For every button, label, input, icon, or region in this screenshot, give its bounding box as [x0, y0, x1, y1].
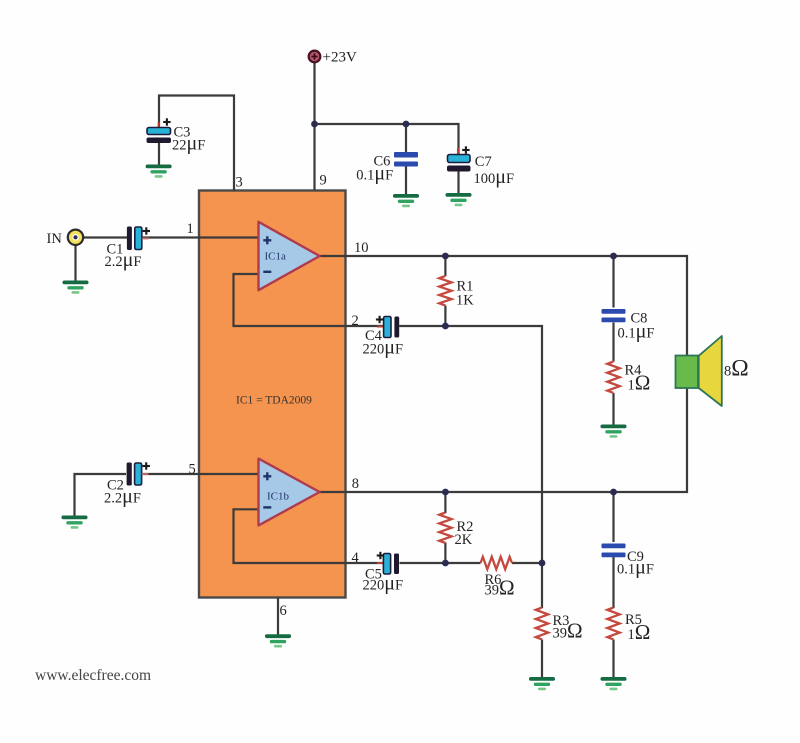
svg-text:9: 9	[320, 173, 327, 189]
svg-text:3: 3	[236, 174, 243, 190]
svg-text:2K: 2K	[455, 532, 473, 548]
svg-text:1: 1	[187, 221, 194, 237]
svg-text:8: 8	[352, 476, 359, 492]
svg-text:IN: IN	[47, 231, 63, 247]
svg-text:5: 5	[189, 462, 196, 478]
svg-text:www.elecfree.com: www.elecfree.com	[35, 667, 151, 684]
svg-text:1K: 1K	[456, 293, 474, 309]
svg-text:C7: C7	[475, 154, 492, 170]
svg-text:+23V: +23V	[323, 50, 357, 66]
svg-text:6: 6	[280, 603, 287, 619]
svg-text:4: 4	[352, 550, 360, 566]
svg-text:10: 10	[354, 240, 369, 256]
svg-text:2: 2	[352, 313, 359, 329]
svg-text:IC1a: IC1a	[265, 251, 287, 263]
svg-text:IC1b: IC1b	[267, 491, 290, 503]
svg-text:IC1 = TDA2009: IC1 = TDA2009	[236, 395, 312, 407]
